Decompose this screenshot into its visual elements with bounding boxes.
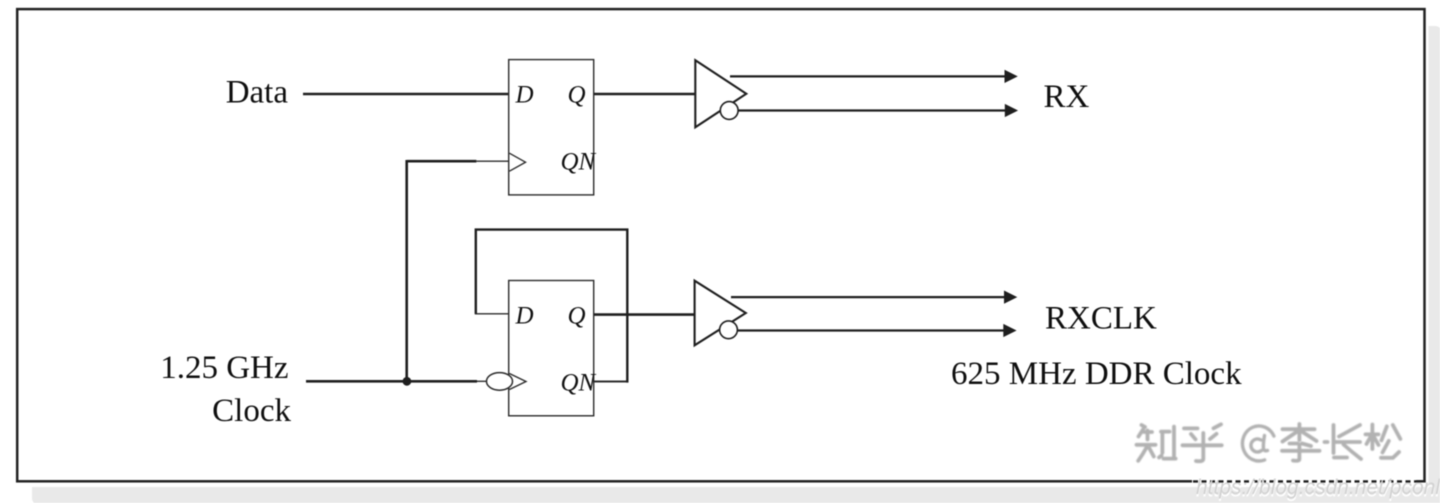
flip-flop U1 (top DFF): [509, 60, 594, 195]
U2 clock inversion ellipse: [487, 373, 513, 391]
U1 clock pin triangle: [509, 153, 525, 171]
wire: 1.25 GHz clock input: [306, 380, 477, 383]
wire: RX true output with arrow: [730, 75, 1005, 77]
junction node (clock tee): [403, 377, 412, 386]
U4 inverted output bubble: [720, 321, 738, 339]
wire: Q1 to buffer U3: [594, 93, 696, 96]
svg-text:https://blog.csdn.net/pconline: https://blog.csdn.net/pconline: [1196, 476, 1440, 499]
svg-text:1.25 GHz: 1.25 GHz: [160, 350, 288, 386]
svg-text:625 MHz DDR Clock: 625 MHz DDR Clock: [951, 356, 1242, 392]
wire: RXCLK complement output with arrow: [738, 329, 1004, 331]
wire: RXCLK true output with arrow: [731, 296, 1005, 298]
wire: clock branch to top FF (thin part): [476, 160, 509, 162]
svg-text:Q: Q: [568, 82, 586, 109]
svg-text:RX: RX: [1044, 79, 1090, 115]
svg-text:QN: QN: [561, 369, 597, 396]
svg-text:Clock: Clock: [212, 393, 291, 429]
wire: RX complement output with arrow: [738, 109, 1005, 111]
U2 clock pin triangle: [509, 374, 526, 390]
wire: Data input: [303, 93, 510, 96]
wire: feedback loop (up, across, down): [476, 230, 628, 383]
watermark csdn url (dashed frame segment where it crosses): [1192, 480, 1416, 483]
buffer U3 (top differential driver): [695, 60, 746, 127]
svg-text:Q: Q: [568, 302, 586, 329]
wire: Q2 to buffer U4: [594, 313, 696, 316]
svg-text:D: D: [515, 302, 534, 329]
wire: clock branch to top FF (thick part): [407, 160, 477, 163]
wire: clock vertical trunk: [405, 160, 408, 381]
buffer U4 (clock differential driver): [695, 281, 746, 346]
U3 inverted output bubble: [720, 102, 738, 120]
wire: feedback into D2: [475, 313, 510, 315]
svg-text:Data: Data: [226, 74, 289, 110]
watermark zhihu @lichangsong (hand drawn strokes): [1137, 424, 1403, 464]
wire: clock input thin connector to bubble: [477, 380, 488, 382]
svg-text:QN: QN: [561, 149, 597, 176]
svg-text:D: D: [515, 82, 534, 109]
wire: QN2 feedback stub: [594, 381, 628, 383]
flip-flop U2 (bottom DFF): [509, 281, 594, 416]
svg-text:RXCLK: RXCLK: [1045, 301, 1157, 337]
